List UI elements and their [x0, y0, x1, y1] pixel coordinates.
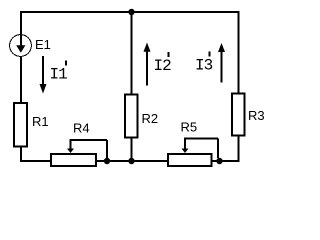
svg-text:R2: R2	[142, 111, 159, 126]
svg-text:R5: R5	[181, 120, 198, 135]
svg-text:R1: R1	[32, 114, 49, 129]
svg-text:I1: I1	[50, 66, 68, 84]
svg-text:I3: I3	[195, 57, 213, 75]
svg-text:R3: R3	[248, 108, 265, 123]
svg-text:R4: R4	[73, 121, 90, 136]
svg-text:I2: I2	[154, 57, 172, 75]
svg-text:E1: E1	[35, 37, 51, 52]
